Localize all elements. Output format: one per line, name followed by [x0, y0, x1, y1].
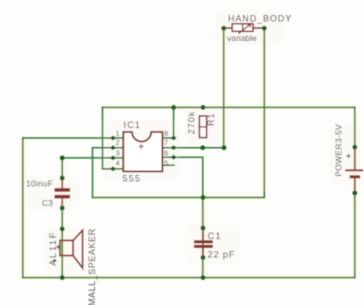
svg-text:8: 8: [164, 129, 168, 138]
svg-text:270k: 270k: [187, 111, 197, 135]
svg-text:C3: C3: [42, 198, 53, 208]
svg-text:MALL_SPEAKER: MALL_SPEAKER: [87, 228, 97, 305]
svg-text:7: 7: [164, 138, 168, 147]
svg-text:6: 6: [164, 149, 168, 158]
svg-text:HAND_BODY: HAND_BODY: [228, 14, 292, 24]
svg-text:1: 1: [116, 129, 120, 138]
svg-text:5: 5: [164, 159, 168, 168]
svg-text:555: 555: [123, 174, 142, 184]
svg-text:3: 3: [116, 149, 120, 158]
svg-text:IC1: IC1: [124, 120, 142, 130]
svg-text:22 pF: 22 pF: [208, 250, 236, 261]
svg-text:C1: C1: [208, 231, 222, 242]
svg-text:2: 2: [116, 138, 120, 147]
svg-text:POWER3-5V: POWER3-5V: [334, 124, 344, 177]
svg-text:AL11F: AL11F: [48, 231, 59, 266]
svg-text:variable: variable: [227, 33, 257, 43]
svg-text:10inuF: 10inuF: [26, 179, 53, 189]
svg-text:R1: R1: [206, 112, 216, 126]
svg-text:4: 4: [116, 159, 120, 168]
